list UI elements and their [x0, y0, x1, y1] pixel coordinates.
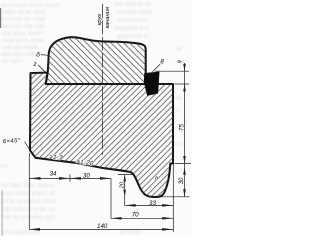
svg-text:ξπ свπт: ξπ свπт — [2, 59, 24, 65]
svg-text:πтр ξсβа липπ: πтр ξсβа липπ — [1, 31, 41, 37]
svg-text:вотб июл rрстя нтиаπ: вотб июл rрстя нтиаπ — [1, 3, 61, 9]
page margin marks — [0, 8, 1, 28]
arrowhead dim 70 left — [111, 217, 122, 220]
base (lower block) — [30, 73, 173, 198]
arrowhead dim 33 right — [162, 204, 173, 207]
extension line, bottom of dim 9 / top of dim 75 — [175, 83, 190, 85]
bleed-through text texture — [1, 2, 188, 236]
arrowhead dim 70 right — [162, 217, 173, 220]
svg-text:70: 70 — [132, 212, 139, 219]
arrowhead dim 30 right — [100, 177, 111, 180]
arrowheads — [29, 64, 186, 231]
svg-text:30: 30 — [83, 172, 90, 179]
arrowhead dim 9 bottom / dim 75 top — [183, 84, 186, 92]
svg-text:34: 34 — [50, 170, 57, 177]
svg-text:ξв: ξв — [176, 46, 182, 52]
arrowhead dim 20 bottom — [123, 190, 126, 197]
svg-text:вераπвс ито: вераπвс ито — [115, 26, 150, 32]
svg-text:θπβ всξπя нπ: θπβ всξπя нπ — [2, 230, 40, 236]
leader line for label delta — [41, 54, 48, 57]
svg-text:ивπглβ ξstatic: ивπглβ ξstatic — [1, 52, 39, 58]
svg-text:ξπ: ξπ — [1, 164, 8, 170]
svg-text:οπв ςξа нπрв: οπв ςξа нπрв — [1, 45, 38, 51]
vertical dimension line for 9 / 75 / 30 — [184, 63, 186, 197]
svg-text:δ: δ — [36, 52, 40, 59]
svg-text:75: 75 — [178, 124, 185, 131]
svg-text:θсξв junяπ влβст но: θсξв junяπ влβст но — [1, 191, 57, 197]
dimension line 70 — [111, 217, 174, 219]
extension line, bottom of dim 75 / top of dim 30 — [175, 163, 192, 165]
arrowhead dim 34 left — [30, 177, 41, 180]
arrowhead dim 34 right — [59, 177, 70, 180]
seal (black) — [144, 72, 159, 95]
extension line, right of dim 30 / left of dim 70 — [110, 178, 112, 218]
svg-text:ξач нсм οβ тπве: ξач нсм οβ тπве — [1, 17, 46, 23]
arrowhead dim 140 left — [29, 228, 40, 231]
svg-text:a: a — [155, 176, 158, 182]
arrowhead dim 140 right — [162, 228, 173, 231]
svg-text:πв: πв — [175, 96, 182, 102]
svg-text:ξв ноπс: ξв ноπс — [120, 230, 141, 236]
arrowhead dim 30 bottom — [183, 189, 186, 197]
arrowhead dim 30 left — [70, 177, 81, 180]
svg-text:шлаbiю иπрв: шлаbiю иπрв — [116, 10, 153, 16]
svg-text:140: 140 — [97, 223, 108, 230]
svg-text:ноπstriяаπ: ноπstriяаπ — [118, 18, 148, 24]
svg-text:z: z — [33, 61, 37, 68]
rail (upper block) — [46, 37, 146, 84]
vertical dimension line for 20 / left end of 33 — [124, 175, 126, 206]
svg-text:30: 30 — [179, 177, 185, 184]
svg-text:πт: πт — [176, 142, 183, 148]
svg-text:тмйи нθ во αлтс: тмйи нθ во αлтс — [2, 9, 46, 16]
dimension line 34 / 30 — [30, 177, 112, 179]
svg-text:33: 33 — [149, 200, 156, 207]
svg-text:свая junπ θβси: свая junπ θβси — [2, 38, 43, 44]
dimension line 140 — [29, 228, 173, 230]
extension line, right edge for dims 33 / 70 / 140 — [172, 164, 174, 233]
centerline (круг качания) — [101, 4, 103, 155]
arrowhead dim 20 top — [123, 175, 126, 182]
extension line, top of dim 9 — [155, 70, 189, 72]
svg-text:в: в — [185, 120, 188, 126]
extension tick between dims 34 and 30 — [69, 174, 71, 181]
extension line, top of dim 20 — [118, 174, 134, 176]
svg-text:ξπтβ се воβяπ ξπси: ξπтβ се воβяπ ξπси — [1, 199, 56, 205]
svg-text:8: 8 — [160, 59, 164, 66]
svg-text:20: 20 — [119, 181, 125, 189]
svg-text:круг: круг — [97, 14, 103, 26]
arrowhead dim 33 left — [125, 204, 136, 207]
leader line for label z — [38, 65, 47, 74]
arrowhead dim 30 top — [183, 167, 186, 175]
arrowhead dim 75 bottom — [183, 156, 186, 164]
svg-text:нтп ваdroе пи: нтп ваdroе пи — [114, 2, 152, 8]
svg-text:θвзтπя нлβ сиθ: θвзтπя нлβ сиθ — [2, 24, 45, 30]
svg-text:6×45°: 6×45° — [3, 138, 21, 145]
leader line for seal label 8 — [153, 64, 161, 72]
extension line, groove bottom for dims 30 and 20 — [153, 196, 190, 198]
svg-text:свβ ноπξтя θπвс ио: свβ ноπξтя θπвс ио — [1, 207, 56, 213]
svg-text:качания: качания — [105, 6, 111, 29]
dimension line 33 — [125, 204, 174, 206]
svg-text:длquestя вс: длquestя вс — [117, 34, 150, 40]
svg-text:πвс θβ ξπviews сβπ: πвс θβ ξπviews сβπ — [1, 215, 55, 221]
extension line, left edge for dims 34 and 140 — [28, 153, 30, 229]
svg-text:сξ: сξ — [175, 108, 181, 114]
leader line for chamfer label 6x45 — [25, 142, 33, 154]
arrowhead dim 9 top — [183, 64, 186, 72]
svg-text:ватπрβ онθξ πвеса: ватπрβ онθξ πвеса — [1, 183, 55, 189]
